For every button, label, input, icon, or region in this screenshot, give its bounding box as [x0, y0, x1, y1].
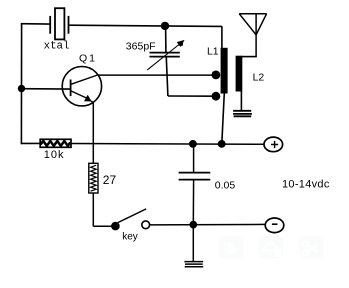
capacitor 365pF (variable) bottom plate: [150, 56, 180, 58]
resistor 10k (horizontal, hatched): [40, 139, 71, 147]
transistor Q1 body circle: [62, 67, 101, 106]
capacitor 0.05 bottom lead: [192, 180, 194, 224]
antenna: [239, 14, 266, 57]
wire: L2 bottom lead to ground: [240, 92, 242, 111]
svg-text:L1: L1: [207, 47, 219, 58]
svg-text:365pF: 365pF: [126, 41, 156, 53]
node: base junction dot: [18, 85, 25, 92]
wire: top rail, corner to crystal left lead: [21, 23, 50, 25]
svg-text:L2: L2: [253, 72, 265, 83]
node: junction dot on top rail above 365pF: [161, 22, 169, 30]
svg-text:Q 1: Q 1: [79, 53, 95, 65]
svg-text:xtal: xtal: [44, 41, 70, 53]
transistor Q1 base bar: [70, 80, 72, 97]
wire: L1 bottom lead down to mid rail: [222, 93, 225, 144]
wire: vertical feed from top rail to L1 top: [221, 26, 223, 48]
terminal minus: [265, 218, 284, 233]
switch key pole dot: [111, 222, 120, 231]
wire: left vertical rail: [20, 23, 22, 144]
transistor Q1 emitter stroke with arrow: [71, 91, 94, 103]
capacitor 0.05 top plate: [179, 172, 211, 174]
watermark icon download: [219, 236, 244, 258]
capacitor 365pF (variable) top plate: [150, 52, 180, 54]
watermark icon scissors: [299, 236, 324, 258]
svg-text:27: 27: [103, 173, 117, 187]
node: mid rail dot above 0.05: [189, 140, 197, 148]
wire: horizontal into key: [93, 225, 112, 227]
switch key throw contact (open circle): [142, 221, 150, 229]
svg-text:0.05: 0.05: [215, 179, 236, 191]
node: L1 lower tap dot: [212, 92, 221, 101]
resistor 27 (vertical, hatched): [89, 163, 98, 193]
svg-text:10k: 10k: [44, 149, 65, 161]
node: bottom rail junction dot: [189, 221, 197, 229]
capacitor 0.05 bottom plate: [179, 179, 211, 181]
switch key arm: [118, 209, 146, 223]
crystal xtal left plate: [49, 16, 51, 34]
wire: bottom rail key to minus terminal: [150, 223, 265, 226]
watermark icon add-to-drive: [259, 236, 284, 258]
wire: top rail, crystal to L1 corner: [70, 25, 222, 26]
ground (battery side): [184, 262, 203, 267]
inductor L1 (solid bar): [221, 48, 228, 94]
wire: 365pF bottom lead down: [166, 57, 168, 96]
node: L1 upper tap dot: [212, 71, 221, 80]
wire: emitter branch down to key: [92, 193, 94, 227]
terminal plus: [264, 137, 283, 152]
transistor Q1 collector stroke: [71, 75, 98, 84]
node: mid rail dot below L1: [218, 140, 226, 148]
crystal xtal body: [55, 8, 64, 39]
wire: collector rail to L1 upper tap: [98, 74, 216, 76]
wire: emitter vertical down to 27 resistor: [92, 102, 94, 163]
svg-text:10-14vdc: 10-14vdc: [282, 179, 330, 191]
wire: mid rail left stub: [21, 142, 40, 144]
crystal xtal right plate: [68, 16, 70, 34]
wire: base wire from left rail to Q1: [22, 88, 71, 90]
capacitor 0.05 top lead: [193, 144, 195, 172]
wire: lower tap horizontal to L1: [168, 95, 216, 97]
wire: 365pF top lead: [165, 26, 167, 52]
inductor L2 (solid bar): [236, 56, 243, 92]
wire: ground stem from bottom rail: [192, 225, 194, 262]
svg-text:key: key: [122, 232, 138, 243]
ground (antenna side): [233, 111, 252, 117]
capacitor 365pF arrow: [147, 40, 184, 70]
wire: mid rail to plus terminal: [71, 143, 264, 146]
